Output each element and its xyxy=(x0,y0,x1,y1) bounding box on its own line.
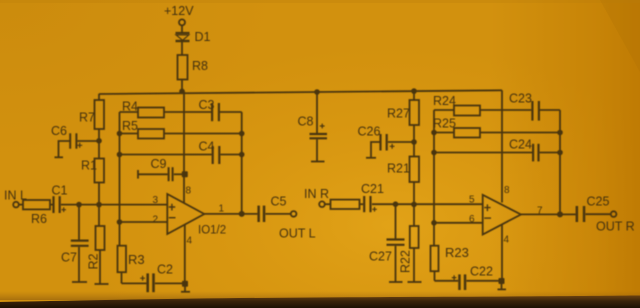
svg-text:C7: C7 xyxy=(61,251,77,265)
svg-text:8: 8 xyxy=(504,185,510,196)
svg-text:R7: R7 xyxy=(79,111,95,125)
svg-text:R8: R8 xyxy=(192,59,208,73)
svg-text:8: 8 xyxy=(186,186,192,197)
svg-text:C1: C1 xyxy=(52,184,68,198)
svg-text:IO1/2: IO1/2 xyxy=(198,225,226,237)
svg-text:2: 2 xyxy=(153,215,159,226)
svg-text:6: 6 xyxy=(469,214,475,225)
svg-text:R5: R5 xyxy=(122,119,138,133)
svg-text:R2: R2 xyxy=(87,253,101,269)
svg-text:R6: R6 xyxy=(31,212,47,226)
svg-text:3: 3 xyxy=(153,195,159,206)
svg-text:R24: R24 xyxy=(433,94,456,108)
svg-text:OUT L: OUT L xyxy=(279,227,316,241)
svg-text:C26: C26 xyxy=(358,125,381,139)
svg-text:C4: C4 xyxy=(199,140,215,154)
svg-text:C5: C5 xyxy=(271,195,287,209)
svg-text:C24: C24 xyxy=(509,138,532,152)
svg-text:7: 7 xyxy=(537,206,543,217)
svg-text:R22: R22 xyxy=(399,250,413,273)
svg-text:C27: C27 xyxy=(369,250,392,264)
svg-text:C6: C6 xyxy=(51,124,67,138)
svg-text:IN L: IN L xyxy=(4,189,27,203)
svg-text:5: 5 xyxy=(469,195,475,206)
svg-text:C22: C22 xyxy=(470,265,493,279)
svg-text:C9: C9 xyxy=(151,157,167,171)
svg-text:C21: C21 xyxy=(361,182,384,196)
svg-text:OUT R: OUT R xyxy=(596,220,635,234)
svg-text:D1: D1 xyxy=(195,30,211,44)
svg-text:R25: R25 xyxy=(433,117,456,131)
svg-text:1: 1 xyxy=(219,204,225,215)
svg-text:C3: C3 xyxy=(199,98,215,112)
svg-text:R27: R27 xyxy=(387,107,410,121)
svg-text:IN R: IN R xyxy=(304,187,329,201)
svg-text:C8: C8 xyxy=(298,115,314,129)
svg-text:R4: R4 xyxy=(122,100,138,114)
svg-text:C23: C23 xyxy=(509,92,532,106)
svg-text:C25: C25 xyxy=(587,195,610,209)
svg-text:R23: R23 xyxy=(445,245,469,260)
svg-text:4: 4 xyxy=(187,236,193,247)
svg-text:R21: R21 xyxy=(387,162,410,176)
svg-text:4: 4 xyxy=(504,235,510,246)
svg-text:R3: R3 xyxy=(128,252,145,267)
svg-text:+12V: +12V xyxy=(164,4,194,18)
svg-text:R1: R1 xyxy=(81,159,97,173)
svg-text:C2: C2 xyxy=(157,263,173,277)
